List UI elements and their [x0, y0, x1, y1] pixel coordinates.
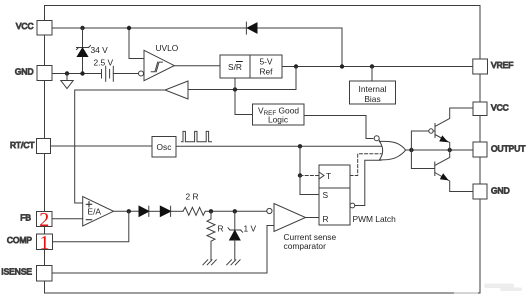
svg-text:Bias: Bias [364, 94, 380, 104]
box Internal Bias [350, 81, 396, 104]
node junction GND rail ground [65, 71, 69, 75]
wire VREF good logic to OR gate [304, 116, 373, 139]
wire OR output to totem pole [405, 149, 473, 151]
svg-text:ISENSE: ISENSE [1, 267, 32, 277]
pin ISENSE [1, 266, 52, 282]
wire UVLO upper input from VCC [129, 28, 144, 59]
wire dashed T output to OR gate [350, 154, 381, 176]
svg-text:FB: FB [20, 212, 31, 222]
wire VCC top rail y=28 [52, 28, 342, 67]
wire E/A output [114, 210, 140, 212]
node junction osc to latch [298, 144, 302, 148]
svg-text:S/R: S/R [228, 62, 242, 72]
zener diode 1 V [227, 211, 243, 264]
svg-text:2: 2 [39, 209, 49, 231]
node junction on VCC rail to UVLO [127, 26, 131, 30]
pin VCC right [473, 102, 509, 116]
label S/R bar [228, 62, 242, 72]
wire COMP to E/A output [53, 211, 129, 241]
node junction VREF rail internal bias [370, 64, 374, 68]
latch PWM Latch box [319, 165, 355, 225]
chip outline border [45, 6, 481, 294]
ground symbol (open triangle) [61, 74, 73, 89]
node junction output emitter [448, 148, 452, 152]
svg-text:Ref: Ref [259, 67, 273, 77]
node junction VREF rail feedback [294, 64, 298, 68]
watermark smudge over bottom line [454, 290, 478, 297]
svg-text:GND: GND [491, 185, 510, 195]
wire to latch S input [300, 176, 319, 195]
wire RT/CT to Osc [50, 145, 152, 147]
resistor 2R horizontal [183, 207, 267, 215]
svg-text:2.5 V: 2.5 V [94, 57, 114, 67]
wire osc down to latch [299, 146, 301, 175]
pin COMP with red 1 [7, 232, 53, 254]
transistor Q2 lower [411, 150, 473, 192]
node junction GND rail zener [80, 71, 84, 75]
pin GND left [15, 66, 52, 81]
wire S/R to VREF Good Logic [235, 78, 253, 115]
or-gate [374, 136, 405, 160]
pin FB with red 2 [20, 209, 52, 231]
box Osc [152, 137, 176, 158]
resistor R vertical [203, 211, 216, 264]
pin RT/CT [10, 139, 51, 154]
svg-text:34 V: 34 V [91, 45, 109, 55]
svg-text:E/A: E/A [88, 207, 102, 217]
wire buffer output to E/A plus input [75, 90, 165, 203]
clock waveform glyph [181, 131, 211, 141]
node junction E/A output COMP [127, 209, 131, 213]
svg-text:S: S [323, 190, 329, 200]
svg-text:Osc: Osc [157, 142, 172, 152]
node junction y=89.5 [233, 87, 237, 91]
buffer amplifier (left pointing) [165, 81, 188, 99]
svg-text:comparator: comparator [284, 241, 327, 251]
svg-text:R: R [323, 214, 329, 224]
svg-text:T: T [326, 171, 331, 181]
pin GND right [473, 184, 510, 199]
wire latch output to OR gate [355, 160, 381, 205]
diode D3 series [160, 206, 183, 216]
wire comparator output to latch R [306, 217, 320, 219]
svg-text:RT/CT: RT/CT [10, 140, 35, 150]
comparator current sense [267, 204, 306, 232]
svg-text:R: R [218, 224, 224, 234]
diode D1 on VCC rail pointing left [246, 22, 257, 34]
svg-text:OUTPUT: OUTPUT [491, 143, 525, 153]
pin VCC left [16, 21, 52, 36]
svg-text:Internal: Internal [359, 84, 387, 94]
svg-text:5-V: 5-V [259, 57, 272, 67]
svg-text:Logic: Logic [268, 115, 288, 125]
node junction OR output [409, 148, 413, 152]
wire VREF rail y=66.5 [282, 66, 473, 68]
box VREF Good Logic [253, 104, 305, 125]
wire UVLO output to S/R [174, 65, 220, 67]
svg-text:VCC: VCC [491, 102, 509, 112]
svg-text:1 V: 1 V [244, 224, 257, 234]
wire 5-V ref to buffer input y=89.5 [188, 67, 296, 90]
svg-text:VCC: VCC [16, 21, 34, 31]
op-amp E/A error amplifier [83, 197, 114, 227]
wire Osc output to OR gate [176, 145, 383, 147]
node junction VREF rail from VCC diode [340, 64, 344, 68]
zener diode 34 V [77, 28, 91, 74]
svg-text:COMP: COMP [7, 235, 33, 245]
wire GND rail y=73.5 [52, 73, 138, 75]
node junction zener 1V [233, 209, 237, 213]
wire to internal bias [371, 67, 373, 82]
comparator U1 UVLO [139, 50, 175, 80]
box S/R [220, 55, 250, 78]
node junction on VCC rail [80, 26, 84, 30]
svg-text:VREF: VREF [491, 60, 513, 70]
wire FB to E/A minus [52, 218, 83, 220]
wire dashed to latch T input [300, 175, 319, 177]
battery 2.5 V [102, 66, 114, 81]
transistor Q1 upper [411, 108, 473, 150]
svg-text:1: 1 [40, 232, 50, 254]
svg-text:GND: GND [15, 66, 34, 76]
node junction at T row [298, 173, 302, 177]
pin OUTPUT [473, 142, 525, 157]
svg-text:UVLO: UVLO [156, 43, 179, 53]
node junction resistor R [209, 209, 213, 213]
wire ISENSE to comparator [52, 226, 274, 274]
label E/A and plus minus [86, 202, 101, 220]
svg-text:2 R: 2 R [186, 192, 199, 202]
diode D2 series [139, 206, 160, 216]
box 5-V Ref [250, 55, 282, 78]
svg-text:PWM Latch: PWM Latch [353, 214, 397, 224]
pin VREF right [473, 59, 514, 74]
